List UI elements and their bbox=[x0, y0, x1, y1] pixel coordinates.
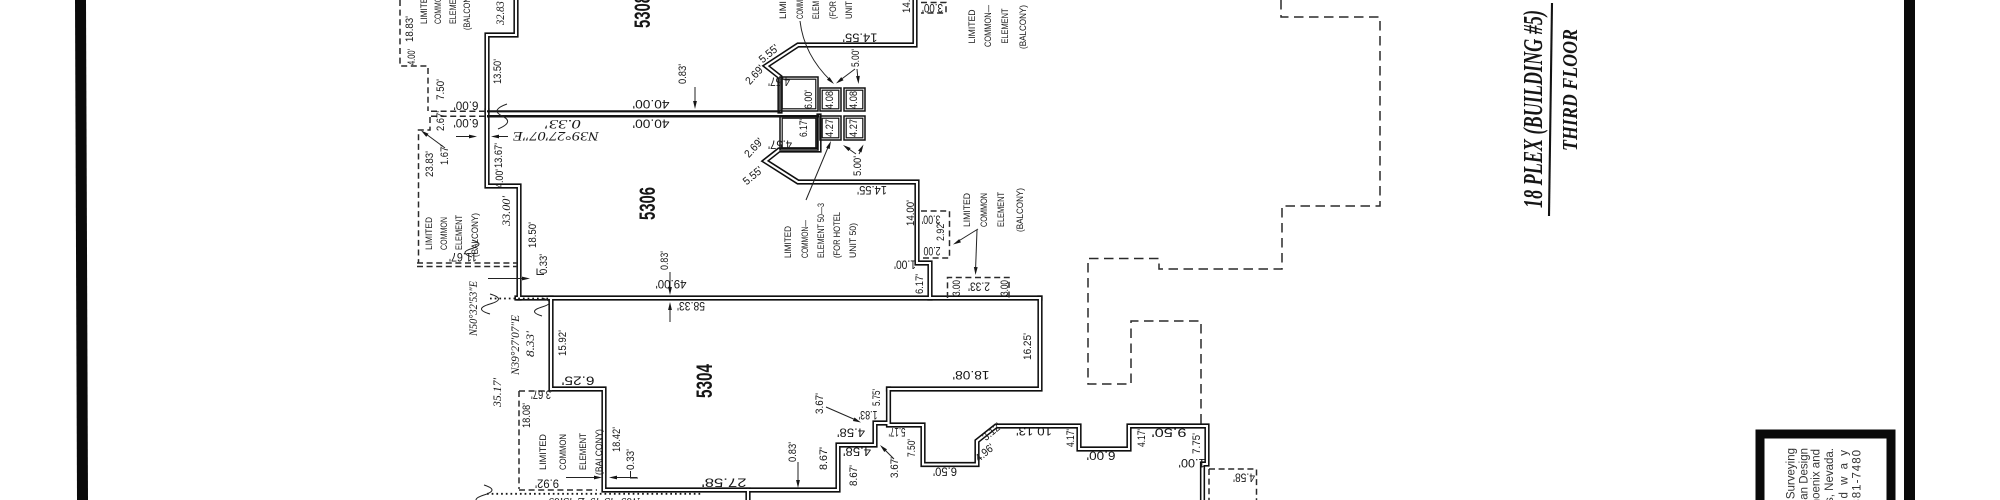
leader 1.67 to balcony corner bbox=[424, 133, 445, 149]
svg-text:1.00': 1.00' bbox=[1179, 456, 1206, 468]
svg-text:8.67': 8.67' bbox=[818, 447, 830, 470]
svg-text:LIMITED: LIMITED bbox=[962, 193, 972, 227]
svg-text:5.00': 5.00' bbox=[852, 156, 864, 176]
party wall line 5306 side (40.00) bbox=[487, 115, 819, 118]
svg-text:UNIT 50): UNIT 50) bbox=[848, 223, 858, 258]
svg-text:1.67': 1.67' bbox=[439, 145, 451, 165]
box 6.17 bbox=[780, 116, 818, 150]
svg-text:33.00': 33.00' bbox=[499, 196, 513, 227]
title underline bbox=[1549, 3, 1552, 216]
break mark on tie line right bbox=[535, 298, 550, 316]
wall: party wall 5306/5304 (49.00/58.33) bbox=[517, 295, 1040, 300]
svg-text:Las Vegas, Nevada.: Las Vegas, Nevada. bbox=[1824, 448, 1836, 500]
svg-text:LIMITED: LIMITED bbox=[967, 9, 977, 43]
wall: unit 5304 left, bottom and stair-step walls bbox=[551, 298, 889, 490]
svg-text:LIMI: LIMI bbox=[778, 1, 788, 19]
svg-text:COMMON: COMMON bbox=[439, 217, 449, 250]
arrow at 5306 SW corner bbox=[488, 278, 527, 280]
wall: unit 5308 left wall and 4.00 step bbox=[487, 0, 516, 111]
svg-text:4.57': 4.57' bbox=[768, 74, 790, 86]
svg-text:COMM: COMM bbox=[795, 0, 805, 19]
dashed: balcony bottom dashed a (11.67) bbox=[417, 262, 517, 264]
left border bar of sheet frame bbox=[75, 0, 88, 500]
dashed: balcony 5304 bottom dashed (9.92) bbox=[519, 489, 597, 491]
wall: building lower-right outline with bays bbox=[889, 425, 1208, 500]
svg-text:THIRD FLOOR: THIRD FLOOR bbox=[1558, 29, 1582, 151]
svg-text:18.50': 18.50' bbox=[527, 222, 539, 248]
svg-text:2.00: 2.00 bbox=[924, 244, 941, 256]
svg-text:5.17': 5.17' bbox=[889, 425, 906, 437]
svg-text:0.83': 0.83' bbox=[659, 251, 671, 270]
svg-text:8.67': 8.67' bbox=[848, 465, 860, 486]
svg-text:ELEMENT 50—3: ELEMENT 50—3 bbox=[816, 203, 826, 258]
svg-text:4.08: 4.08 bbox=[848, 91, 860, 109]
wall cores (white centers of double lines) bbox=[487, 0, 516, 111]
break mark on tie line left bbox=[482, 294, 499, 314]
svg-text:Planning Engineering Surveyi: Planning Engineering Surveying bbox=[1786, 448, 1798, 500]
svg-text:3.00': 3.00' bbox=[922, 1, 943, 13]
svg-text:14.55': 14.55' bbox=[857, 183, 887, 195]
svg-text:32.83': 32.83' bbox=[493, 0, 507, 26]
svg-text:(BALCONY): (BALCONY) bbox=[1018, 5, 1028, 49]
svg-text:7.50': 7.50' bbox=[435, 79, 447, 100]
svg-text:N39°27′07″E: N39°27′07″E bbox=[513, 129, 601, 143]
svg-text:COMMON: COMMON bbox=[979, 193, 989, 227]
svg-text:14.00': 14.00' bbox=[905, 200, 917, 226]
dashed: balcony box 4.58 bottom right a bbox=[1209, 469, 1257, 500]
svg-text:LIMITED: LIMITED bbox=[538, 434, 548, 470]
break mark on bottom dotted line bbox=[476, 485, 492, 500]
svg-text:13.67': 13.67' bbox=[493, 143, 505, 168]
svg-text:1.83': 1.83' bbox=[859, 408, 878, 420]
svg-text:6.17': 6.17' bbox=[798, 119, 810, 137]
svg-text:0.33': 0.33' bbox=[545, 117, 581, 131]
party wall line 5308 side (40.00) bbox=[487, 110, 780, 112]
svg-text:9.92': 9.92' bbox=[535, 476, 559, 488]
svg-text:COMMON—: COMMON— bbox=[800, 219, 810, 258]
dotted boundary line bottom bbox=[487, 493, 703, 495]
dashed: balcony 5304 left dashed (18.08) bbox=[518, 391, 520, 489]
dotted survey tie line (8.33) bbox=[490, 298, 549, 300]
svg-text:4.00': 4.00' bbox=[406, 49, 418, 65]
arrows 5.00 (top) bbox=[839, 69, 855, 81]
box 4.27 a bbox=[820, 116, 841, 140]
svg-text:(BALCONY): (BALCONY) bbox=[462, 0, 472, 30]
dim arrow into 5306 wall (left side) bbox=[456, 136, 474, 138]
svg-text:3.00: 3.00 bbox=[951, 280, 963, 296]
dashed: balcony 5304 top dashed bbox=[519, 390, 552, 392]
svg-text:14.00': 14.00' bbox=[901, 0, 913, 13]
dashed: balcony dashed party line a bbox=[431, 110, 487, 112]
svg-text:18 PLEX (BUILDING #5): 18 PLEX (BUILDING #5) bbox=[1518, 10, 1548, 208]
svg-text:4.57': 4.57' bbox=[768, 137, 792, 149]
svg-text:LIMITED: LIMITED bbox=[419, 0, 429, 24]
svg-text:6.00': 6.00' bbox=[803, 90, 815, 109]
svg-text:18.08': 18.08' bbox=[953, 368, 990, 380]
arrow 0.83 to party wall (5308) bbox=[694, 87, 696, 105]
svg-text:2.92': 2.92' bbox=[935, 222, 947, 241]
svg-text:5304: 5304 bbox=[692, 364, 717, 398]
svg-text:N39°27′07″E: N39°27′07″E bbox=[508, 314, 522, 376]
svg-text:ELEMENT: ELEMENT bbox=[996, 192, 1006, 227]
svg-text:ELEMENT: ELEMENT bbox=[578, 433, 588, 470]
svg-text:LIMITED: LIMITED bbox=[783, 226, 793, 258]
svg-text:18.83': 18.83' bbox=[404, 16, 416, 42]
svg-text:4.58': 4.58' bbox=[837, 425, 865, 437]
svg-text:14.55': 14.55' bbox=[843, 30, 878, 42]
svg-text:6.17': 6.17' bbox=[914, 274, 926, 294]
svg-text:4.17': 4.17' bbox=[1136, 429, 1148, 447]
svg-text:4.27: 4.27 bbox=[848, 119, 860, 137]
box 4.08 b bbox=[844, 88, 865, 111]
dashed: balcony box 3.00x2.92 bbox=[921, 211, 950, 258]
svg-text:(BALCONY): (BALCONY) bbox=[1015, 188, 1025, 232]
svg-text:16.25': 16.25' bbox=[1022, 333, 1034, 360]
wall: unit 5306 notch and right side walls bbox=[765, 116, 930, 298]
svg-text:(702) 881-7480: (702) 881-7480 bbox=[1852, 449, 1864, 500]
svg-text:(FOR HOTEL: (FOR HOTEL bbox=[832, 212, 842, 258]
arrows 5.00 (bottom) bbox=[846, 147, 856, 154]
svg-text:5.75': 5.75' bbox=[871, 389, 883, 406]
svg-text:13.50': 13.50' bbox=[492, 59, 504, 84]
svg-text:ELEMENT: ELEMENT bbox=[448, 0, 458, 24]
arrow 0.83 from below bbox=[669, 306, 671, 322]
svg-text:3.67': 3.67' bbox=[889, 457, 901, 478]
dashed: balcony outline top-left bbox=[400, 0, 428, 111]
svg-text:ELEMENT: ELEMENT bbox=[1000, 8, 1010, 43]
svg-text:6.25': 6.25' bbox=[562, 373, 595, 385]
svg-text:6.00': 6.00' bbox=[454, 99, 479, 111]
svg-text:7.50': 7.50' bbox=[906, 439, 918, 457]
svg-text:4.27: 4.27 bbox=[824, 119, 836, 137]
svg-text:COMMON—: COMMON— bbox=[983, 4, 993, 47]
svg-text:6.00': 6.00' bbox=[1087, 448, 1116, 460]
right border bar of sheet frame bbox=[1904, 0, 1915, 500]
leader from LCE 50-3 label (bottom) bbox=[806, 145, 829, 200]
dashed: balcony box 3.00 top right bbox=[921, 3, 946, 14]
svg-text:40.00': 40.00' bbox=[633, 116, 670, 128]
bracket 0.33 bottom bbox=[631, 471, 639, 478]
svg-text:8.33': 8.33' bbox=[523, 331, 537, 357]
leader from LCE 50-3 label (top) bbox=[800, 21, 831, 81]
svg-text:(BALCONY): (BALCONY) bbox=[594, 429, 604, 475]
dashed: balcony box 4.58 bottom right b bbox=[1208, 469, 1210, 500]
leaders from balcony label to dashed boxes bbox=[957, 229, 978, 242]
dashed: balcony 2.67 jog and 23.83 edge bbox=[419, 117, 431, 263]
svg-text:11.67': 11.67' bbox=[449, 250, 477, 262]
svg-text:5306: 5306 bbox=[635, 187, 660, 220]
box 4.27 b bbox=[844, 116, 865, 140]
wall: wall stub below 27.58 wall bbox=[745, 490, 750, 500]
svg-text:5308: 5308 bbox=[630, 0, 655, 28]
surveyor stamp box bbox=[1760, 434, 1891, 500]
svg-text:COMMON: COMMON bbox=[433, 0, 443, 24]
svg-text:B r o a d w a y: B r o a d w a y bbox=[1839, 448, 1851, 500]
svg-text:0.83': 0.83' bbox=[677, 64, 689, 84]
svg-text:15.92': 15.92' bbox=[557, 330, 569, 356]
svg-text:LIMITED: LIMITED bbox=[424, 217, 434, 250]
svg-text:0.33': 0.33' bbox=[538, 254, 550, 274]
svg-text:7.75': 7.75' bbox=[1191, 433, 1203, 454]
leader 3.67 upper bbox=[826, 407, 857, 421]
svg-text:ELEM: ELEM bbox=[811, 1, 821, 19]
arrow 0.83 to party wall (5306 bottom) bbox=[669, 272, 671, 291]
svg-text:10.13': 10.13' bbox=[1016, 424, 1052, 436]
svg-text:5.00': 5.00' bbox=[850, 49, 862, 67]
svg-text:4.58': 4.58' bbox=[1233, 470, 1255, 482]
svg-text:Landscape Architecture Urban: Landscape Architecture Urban Design bbox=[1799, 448, 1811, 500]
dashed: balcony dashed party line b bbox=[431, 115, 487, 117]
dashed common-area corridor outline (right) bbox=[1088, 0, 1380, 425]
svg-text:9.50': 9.50' bbox=[1152, 425, 1187, 437]
svg-text:49.00': 49.00' bbox=[656, 277, 687, 289]
dashed: balcony bottom dashed b bbox=[417, 266, 517, 268]
break arc at party wall junction bbox=[497, 104, 508, 129]
dim arrow into 5306 wall (right side) bbox=[494, 136, 508, 138]
svg-text:2.67': 2.67' bbox=[435, 111, 447, 131]
break mark near balcony bottom bbox=[465, 240, 479, 257]
svg-text:18.42': 18.42' bbox=[611, 427, 623, 452]
svg-text:40.00': 40.00' bbox=[633, 97, 670, 109]
svg-text:4.58': 4.58' bbox=[843, 444, 871, 456]
svg-text:COMMON: COMMON bbox=[558, 434, 568, 470]
dashed: balcony strip 2.33 over party wall bbox=[948, 278, 1010, 299]
arrow 0.83 to 27.58 wall bbox=[797, 462, 799, 484]
box 6.00 bbox=[780, 77, 818, 111]
svg-text:N50°32′53″E: N50°32′53″E bbox=[466, 280, 480, 336]
svg-text:4.17': 4.17' bbox=[1065, 429, 1077, 447]
svg-text:2.33': 2.33' bbox=[968, 279, 990, 291]
svg-text:0.33': 0.33' bbox=[625, 449, 637, 470]
wall: unit 5304 right wing rectangle (16.25/18.08) bbox=[889, 298, 1041, 389]
svg-text:N69°43′49″E 43.69: N69°43′49″E 43.69 bbox=[548, 494, 641, 500]
svg-text:58.33': 58.33' bbox=[677, 299, 705, 311]
svg-text:35.17': 35.17' bbox=[490, 378, 504, 408]
leader 3.67 lower bbox=[883, 448, 894, 459]
svg-text:3.67': 3.67' bbox=[814, 393, 826, 414]
wall: unit 5308 notch, top wall and right wall bbox=[766, 0, 915, 111]
box 4.08 a bbox=[820, 88, 841, 111]
svg-text:3.00: 3.00 bbox=[999, 280, 1011, 296]
svg-text:4.00': 4.00' bbox=[494, 169, 506, 188]
svg-text:18.08': 18.08' bbox=[521, 403, 533, 428]
svg-text:4.08: 4.08 bbox=[824, 91, 836, 109]
svg-text:3.67': 3.67' bbox=[531, 387, 551, 399]
svg-text:23.83': 23.83' bbox=[424, 151, 436, 177]
svg-text:ELEMENT: ELEMENT bbox=[454, 215, 464, 250]
svg-text:27.58': 27.58' bbox=[702, 475, 747, 487]
dim arrows 0.33 at bottom wall corner bbox=[566, 477, 599, 479]
svg-text:0.83': 0.83' bbox=[787, 442, 799, 462]
svg-text:1.00': 1.00' bbox=[894, 257, 916, 269]
bracket 0.33 at corner bbox=[537, 269, 544, 275]
svg-text:with offices in Phoenix and: with offices in Phoenix and bbox=[1811, 449, 1823, 500]
svg-text:(FOR: (FOR bbox=[828, 1, 838, 19]
wall: unit 5306 left wall with 4.00 step bbox=[487, 111, 519, 298]
svg-text:6.50': 6.50' bbox=[933, 464, 957, 476]
svg-text:UNIT: UNIT bbox=[844, 1, 854, 19]
svg-text:6.00': 6.00' bbox=[454, 116, 479, 128]
